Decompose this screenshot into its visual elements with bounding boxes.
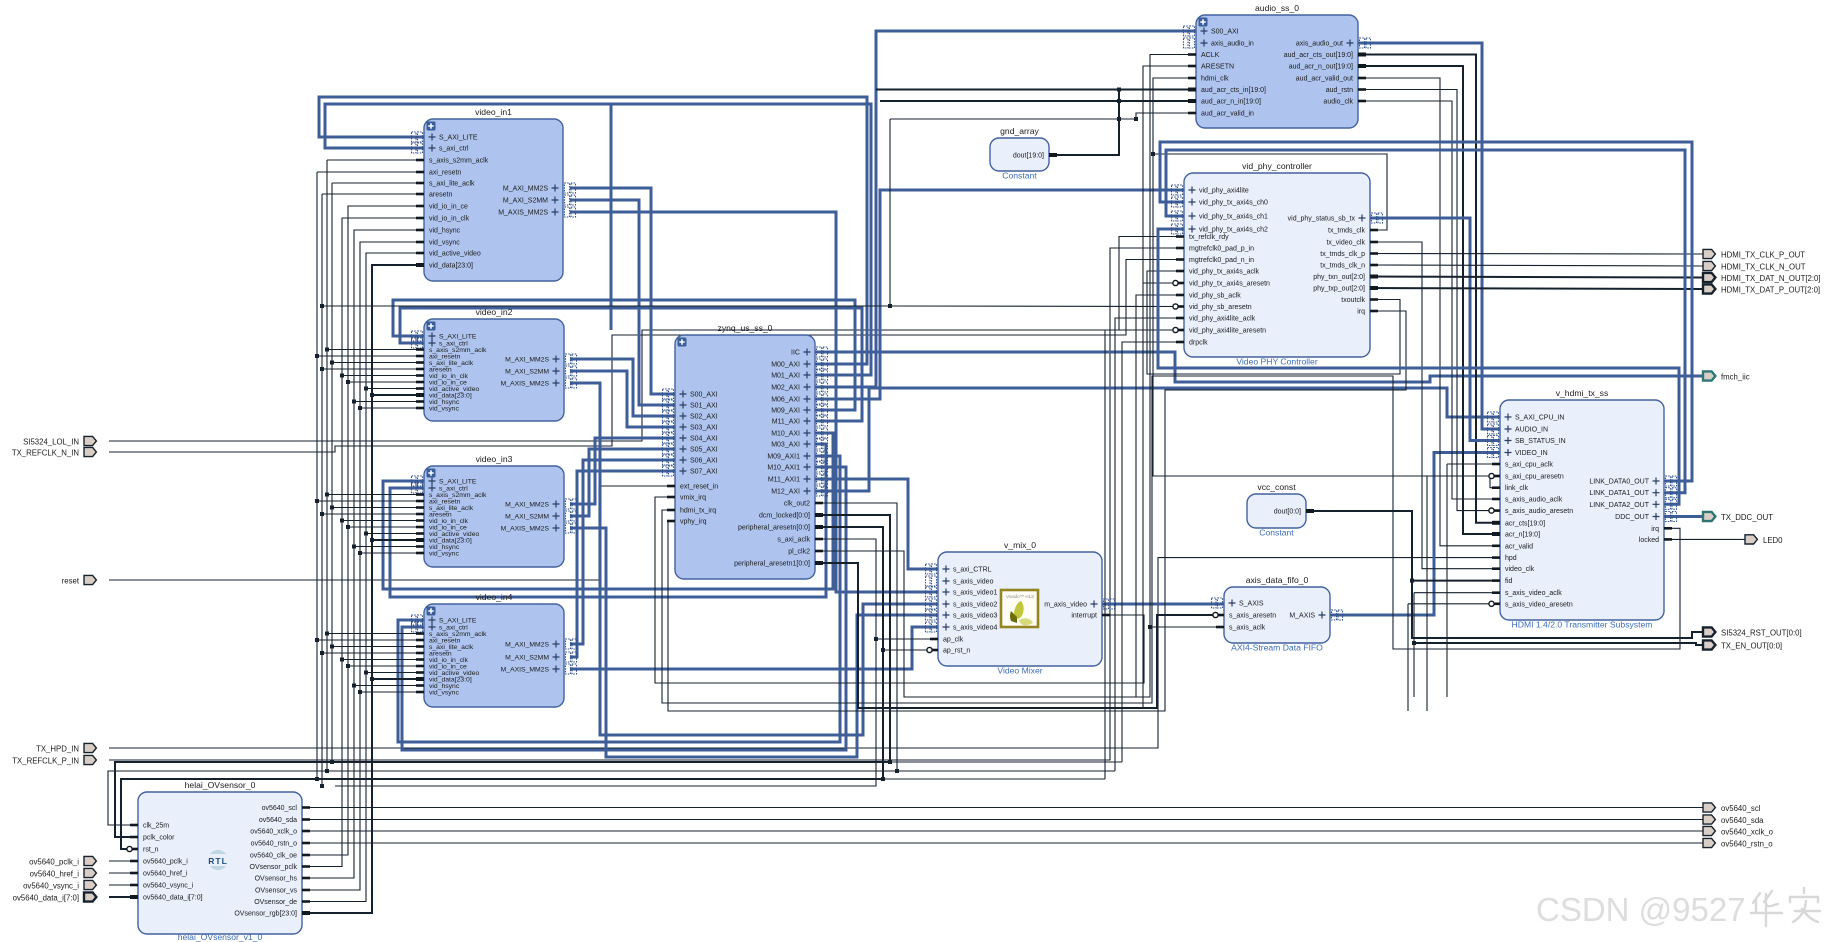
svg-text:vid_phy_axi4lite: vid_phy_axi4lite <box>1199 188 1249 195</box>
wire s2mm_aclk branch 349 <box>327 349 424 351</box>
svg-text:M_AXIS_MM2S: M_AXIS_MM2S <box>501 525 550 532</box>
node OVsensor_rgb j540 <box>370 538 374 542</box>
svg-text:ov5640_xclk_o: ov5640_xclk_o <box>250 829 297 836</box>
svg-text:OVsensor_hs: OVsensor_hs <box>255 876 298 883</box>
node s2mm_aclk j349 <box>325 348 329 352</box>
svg-text:S_AXI_CPU_IN: S_AXI_CPU_IN <box>1515 415 1564 422</box>
svg-text:dcm_locked[0:0]: dcm_locked[0:0] <box>759 513 810 520</box>
node OVsensor_vs j553 <box>358 551 362 555</box>
svg-text:M_AXI_MM2S: M_AXI_MM2S <box>505 641 549 648</box>
svg-text:s_axis_video4: s_axis_video4 <box>953 625 997 632</box>
wire audio axis_audio_out to v_hdmi AUDIO_IN <box>1358 43 1500 429</box>
svg-text:ov5640_rstn_o: ov5640_rstn_o <box>251 841 297 848</box>
wire aresetn branch 369 <box>322 368 424 370</box>
svg-text:OVsensor_pclk: OVsensor_pclk <box>250 864 298 871</box>
node lite_aclk j646 <box>330 645 334 649</box>
port ov5640_sda <box>1703 815 1764 825</box>
block video_in4 <box>412 592 577 707</box>
node s2mm_aclk j633 <box>325 632 329 636</box>
svg-text:vid_active_video: vid_active_video <box>429 251 481 258</box>
svg-text:M01_AXI: M01_AXI <box>771 373 800 380</box>
wire aresetn channel <box>321 194 323 786</box>
svg-text:vid_phy_tx_axi4s_ch0: vid_phy_tx_axi4s_ch0 <box>1199 200 1268 207</box>
wire vid_phy axi4lite_aclk feed <box>1115 318 1184 771</box>
wire v_mix m_axis_video to fifo S_AXIS <box>1102 603 1224 606</box>
svg-text:phy_txn_out[2:0]: phy_txn_out[2:0] <box>1313 274 1365 281</box>
wire axi_resetn branch 356 <box>317 355 424 357</box>
wire ov5640_sda run <box>302 819 1703 821</box>
svg-text:M_AXIS: M_AXIS <box>1289 613 1315 620</box>
port ov5640_scl <box>1703 803 1761 813</box>
svg-text:S07_AXI: S07_AXI <box>690 469 718 476</box>
wire vid_phy irq to vphy_irq <box>668 311 1406 711</box>
svg-text:locked: locked <box>1639 537 1659 544</box>
svg-text:tx_video_clk: tx_video_clk <box>1326 240 1365 247</box>
node OVsensor_pclk j520 <box>340 519 344 523</box>
node jn aprst <box>881 648 885 652</box>
svg-text:ov5640_xclk_o: ov5640_xclk_o <box>1721 827 1774 836</box>
svg-text:vid_phy_axi4lite_aresetn: vid_phy_axi4lite_aresetn <box>1189 328 1266 335</box>
wire phy_txn_out to HDMI_TX_DAT_N_OUT <box>1370 277 1703 278</box>
block gnd_array <box>990 126 1057 181</box>
svg-text:gnd_array: gnd_array <box>1000 126 1039 136</box>
svg-text:OVsensor_de: OVsensor_de <box>254 899 297 906</box>
svg-text:M_AXI_S2MM: M_AXI_S2MM <box>505 513 549 520</box>
wire axi_resetn branch 501 <box>317 500 424 502</box>
svg-text:s_axi_aclk: s_axi_aclk <box>777 537 810 544</box>
svg-text:vid_vsync: vid_vsync <box>429 405 459 412</box>
wire zynq M12_AXI to v_hdmi S_AXI_CPU_IN <box>815 388 1500 491</box>
wire lite_aclk branch 507 <box>332 507 424 509</box>
svg-text:HDMI 1.4/2.0 Transmitter Subsy: HDMI 1.4/2.0 Transmitter Subsystem <box>1512 620 1653 630</box>
node s2mm_aclk j494 <box>325 493 329 497</box>
svg-text:s_axis_video1: s_axis_video1 <box>953 590 997 597</box>
port ov5640_vsync_i <box>23 880 96 890</box>
port ov5640_pclk_i <box>29 856 96 866</box>
wire video_in2 M_AXI_S2MM to S03_AXI <box>570 371 675 427</box>
svg-text:tx_tmds_clk_p: tx_tmds_clk_p <box>1320 251 1365 258</box>
svg-text:TX_REFCLK_P_IN: TX_REFCLK_P_IN <box>12 756 79 765</box>
svg-text:helai_OVsensor_0: helai_OVsensor_0 <box>185 780 256 790</box>
node axi_resetn j640 <box>315 638 319 642</box>
node jn aclk fifo <box>1148 625 1152 629</box>
wire OVsensor_pclk branch 659 <box>342 659 424 661</box>
wire reset to ext_reset_in <box>109 486 675 580</box>
wire OVsensor_hs branch 685 <box>354 685 424 687</box>
svg-text:ov5640_sda: ov5640_sda <box>1721 816 1764 825</box>
port ov5640_data_i[7:0] <box>13 892 97 902</box>
wire s2mm_aclk branch 633 <box>327 633 424 635</box>
svg-text:vcc_const: vcc_const <box>1257 482 1296 492</box>
svg-text:vid_io_in_ce: vid_io_in_ce <box>429 204 468 211</box>
wire v_hdmi s_axis_video_aclk feed <box>1414 592 1500 594</box>
block video_in3 <box>412 454 577 567</box>
wire TX_REFCLK_P_IN to mgtrefclk0_pad_p_in <box>109 248 1184 760</box>
svg-text:vid_data[23:0]: vid_data[23:0] <box>429 263 473 270</box>
wire peripheral_aresetn1 to fifo s_axis_aresetn <box>815 563 1224 708</box>
wire v_hdmi clk feeds s_axi_cpu_aclk <box>1447 463 1500 465</box>
svg-text:M06_AXI: M06_AXI <box>771 397 800 404</box>
port HDMI_TX_CLK_N_OUT <box>1703 261 1806 271</box>
wire OVsensor_rgb branch 395 <box>372 394 424 396</box>
svg-text:M_AXI_S2MM: M_AXI_S2MM <box>505 654 549 661</box>
svg-text:aresetn: aresetn <box>429 192 452 199</box>
svg-text:S_AXI_LITE: S_AXI_LITE <box>439 617 477 624</box>
svg-text:M_AXI_MM2S: M_AXI_MM2S <box>505 356 549 363</box>
node jn gnd119 <box>1117 117 1121 121</box>
wire audio ACLK feed <box>1150 55 1196 628</box>
wire aresetn branch 514 <box>322 513 424 515</box>
wire clk trunk right <box>897 770 1115 772</box>
svg-text:S03_AXI: S03_AXI <box>690 425 718 432</box>
svg-text:s_axis_video2: s_axis_video2 <box>953 602 997 609</box>
node OVsensor_pclk j659 <box>340 658 344 662</box>
svg-text:S00_AXI: S00_AXI <box>690 392 718 399</box>
svg-text:M_AXI_S2MM: M_AXI_S2MM <box>505 368 549 375</box>
port TX_EN_OUT[0:0] <box>1703 640 1782 650</box>
wire lite_aclk branch 646 <box>332 646 424 648</box>
svg-text:helai_OVsensor_v1_0: helai_OVsensor_v1_0 <box>178 932 263 942</box>
v_mix_0 Vivado HLS logo <box>1001 590 1038 627</box>
svg-text:vid_phy_sb_aclk: vid_phy_sb_aclk <box>1189 293 1241 300</box>
svg-text:interrupt: interrupt <box>1071 613 1097 620</box>
svg-text:S01_AXI: S01_AXI <box>690 403 718 410</box>
wire ov5640_clk_oe branch 527 <box>348 526 424 528</box>
svg-text:M_AXI_MM2S: M_AXI_MM2S <box>503 186 548 193</box>
svg-text:aud_acr_valid_in: aud_acr_valid_in <box>1201 111 1254 118</box>
node jn aresetn helai <box>881 777 885 781</box>
svg-text:vid_phy_axi4lite_aclk: vid_phy_axi4lite_aclk <box>1189 316 1256 323</box>
svg-text:S_AXI_LITE: S_AXI_LITE <box>439 478 477 485</box>
wire DDC_OUT to TX_DDC_OUT <box>1664 515 1703 518</box>
block vcc_const <box>1247 482 1314 538</box>
wire aud_acr_n_out to acr_n <box>1358 66 1500 534</box>
node OVsensor_hs j546 <box>352 545 356 549</box>
svg-text:fmch_iic: fmch_iic <box>1721 372 1750 381</box>
wire OVsensor_vs elbow <box>302 242 424 890</box>
wire tmds to hdmi_clk <box>1153 78 1387 230</box>
svg-text:audio_clk: audio_clk <box>1323 99 1353 106</box>
wire ov5640_rstn_o run <box>302 842 1703 844</box>
svg-text:AXI4-Stream Data FIFO: AXI4-Stream Data FIFO <box>1231 643 1323 653</box>
wire v_hdmi s_axi_cpu_aresetn v <box>1426 476 1428 711</box>
wire zynq M11_AXI to video_in2 s_axi_ctrl <box>400 308 862 421</box>
wire zynq M10_AXI to video_in3 S_AXI_LITE <box>383 433 833 589</box>
wire s2mm_aclk branch 160 <box>327 159 424 161</box>
node axi_resetn j356 <box>315 354 319 358</box>
svg-text:ov5640_data_i[7:0]: ov5640_data_i[7:0] <box>13 893 79 902</box>
svg-text:VIDEO_IN: VIDEO_IN <box>1515 450 1548 457</box>
svg-text:vphy_irq: vphy_irq <box>680 519 707 526</box>
port SI5324_RST_OUT[0:0] <box>1703 627 1802 637</box>
svg-text:Video PHY Controller: Video PHY Controller <box>1236 357 1318 367</box>
svg-text:CSDN @9527: CSDN @9527 <box>1536 891 1746 928</box>
node jn rst2 <box>1410 579 1414 583</box>
svg-text:SI5324_RST_OUT[0:0]: SI5324_RST_OUT[0:0] <box>1721 628 1802 637</box>
port TX_REFCLK_P_IN <box>12 755 96 765</box>
wire gnd vertical <box>1118 90 1120 156</box>
svg-text:S_AXI_LITE: S_AXI_LITE <box>439 333 477 340</box>
port ov5640_xclk_o <box>1703 826 1774 836</box>
wire tx_tmds_clk_n to HDMI_TX_CLK_N_OUT <box>1370 265 1703 266</box>
wire video_in1 M_AXI_MM2S to S00_AXI <box>570 188 675 394</box>
svg-text:peripheral_aresetn1[0:0]: peripheral_aresetn1[0:0] <box>734 561 810 568</box>
svg-text:TX_DDC_OUT: TX_DDC_OUT <box>1721 513 1773 522</box>
wire OVsensor_vs branch 408 <box>360 407 424 409</box>
wire TX_HPD_IN to v_hdmi hpd <box>109 558 1500 748</box>
svg-text:peripheral_aresetn[0:0]: peripheral_aresetn[0:0] <box>738 525 810 532</box>
wire vid_phy drpclk feed <box>1122 342 1184 762</box>
node ov5640_clk_oe j382 <box>346 380 350 384</box>
svg-text:HDMI_TX_CLK_N_OUT: HDMI_TX_CLK_N_OUT <box>1721 262 1806 271</box>
svg-text:vid_hsync: vid_hsync <box>429 228 461 235</box>
svg-text:txoutclk: txoutclk <box>1341 297 1365 304</box>
node lite_aclk jb <box>330 760 334 764</box>
wire OVsensor_de branch 388 <box>366 388 424 390</box>
wire OVsensor_pclk branch 375 <box>342 375 424 377</box>
svg-text:vmix_irq: vmix_irq <box>680 495 706 502</box>
node ov5640_clk_oe j666 <box>346 664 350 668</box>
wire zynq M09_AXI1 to video_in4 S_AXI_LITE <box>398 456 840 742</box>
node jn sbar2 <box>320 304 324 308</box>
wire axi_resetn branch 172 <box>317 171 424 173</box>
node axi_resetn j501 <box>315 499 319 503</box>
wire OVsensor_hs branch 401 <box>354 401 424 403</box>
wire ov5640_href_i to helai <box>109 872 138 874</box>
wire zynq M06_AXI to vid_phy_axi4lite <box>815 190 1184 399</box>
wire locked to LED0 <box>1664 538 1745 540</box>
svg-text:DDC_OUT: DDC_OUT <box>1615 514 1650 521</box>
block v_hdmi_tx_ss <box>1488 388 1677 630</box>
port ov5640_rstn_o <box>1703 838 1773 848</box>
wire vid_phy_status_sb_tx to SB_STATUS_IN <box>1370 218 1500 441</box>
svg-text:acr_cts[19:0]: acr_cts[19:0] <box>1505 520 1545 527</box>
wire ov5640_clk_oe branch 382 <box>348 381 424 383</box>
svg-text:link_clk: link_clk <box>1505 485 1528 492</box>
svg-text:M00_AXI: M00_AXI <box>771 362 800 369</box>
svg-text:LINK_DATA1_OUT: LINK_DATA1_OUT <box>1589 490 1649 497</box>
wire lite_aclk branch 183 <box>332 182 424 184</box>
port HDMI_TX_DAT_P_OUT[2:0] <box>1703 284 1820 294</box>
wire ov5640_scl run <box>302 807 1703 809</box>
port HDMI_TX_CLK_P_OUT <box>1703 249 1805 259</box>
svg-text:S05_AXI: S05_AXI <box>690 447 718 454</box>
node jn gnd <box>1117 99 1121 103</box>
svg-text:pclk_color: pclk_color <box>143 835 175 842</box>
svg-text:M12_AXI: M12_AXI <box>771 489 800 496</box>
svg-text:s_axis_audio_aresetn: s_axis_audio_aresetn <box>1505 508 1573 515</box>
svg-text:tx_tmds_clk: tx_tmds_clk <box>1328 228 1365 235</box>
wire LINK_DATA0_OUT to ch0 <box>1160 142 1692 481</box>
svg-text:M_AXIS_MM2S: M_AXIS_MM2S <box>498 210 548 217</box>
wire aud_acr_cts_out to acr_cts <box>1358 55 1500 523</box>
svg-text:dout[0:0]: dout[0:0] <box>1274 509 1301 516</box>
node jn tmds <box>1151 152 1155 156</box>
node OVsensor_hs j685 <box>352 684 356 688</box>
svg-text:irq: irq <box>1651 526 1659 533</box>
svg-text:LINK_DATA2_OUT: LINK_DATA2_OUT <box>1589 502 1649 509</box>
svg-text:vid_vsync: vid_vsync <box>429 550 459 557</box>
wire SI5324_LOL_IN to tx_refclk_rdy <box>109 237 1184 442</box>
svg-text:vid_phy_status_sb_tx: vid_phy_status_sb_tx <box>1288 216 1356 223</box>
wire gnd to aud_acr_cts_in <box>876 89 1196 91</box>
wire v_hdmi irq to hdmi_tx_irq <box>662 376 1680 703</box>
wire sb_aresetn long <box>322 305 1184 308</box>
svg-text:ov5640_href_i: ov5640_href_i <box>30 869 80 878</box>
wire OVsensor_pclk elbow <box>302 218 424 867</box>
node jn dcm helai <box>888 760 892 764</box>
svg-text:vid_vsync: vid_vsync <box>429 240 460 247</box>
svg-text:clk_out2: clk_out2 <box>784 501 810 508</box>
port reset <box>62 575 97 585</box>
svg-text:dout[19:0]: dout[19:0] <box>1013 153 1044 160</box>
svg-text:audio_ss_0: audio_ss_0 <box>1255 3 1299 13</box>
svg-text:irq: irq <box>1357 309 1365 316</box>
svg-text:clk_25m: clk_25m <box>143 823 169 830</box>
port TX_DDC_OUT <box>1703 512 1773 522</box>
svg-text:tx_tmds_clk_n: tx_tmds_clk_n <box>1320 263 1365 270</box>
wire OVsensor_rgb branch 679 <box>372 678 424 680</box>
wire OVsensor_rgb elbow <box>302 265 424 913</box>
svg-text:ov5640_sda: ov5640_sda <box>259 817 297 824</box>
svg-text:s_axi_lite_aclk: s_axi_lite_aclk <box>429 181 475 188</box>
svg-text:IIC: IIC <box>791 350 800 357</box>
wire TX_REFCLK_N_IN to mgtrefclk0_pad_n_in <box>109 260 1184 453</box>
wire zynq M11_AXI1 to v_mix s_axi_CTRL <box>815 479 938 569</box>
svg-text:vid_phy_tx_axi4s_aresetn: vid_phy_tx_axi4s_aresetn <box>1189 281 1270 288</box>
svg-text:ov5640_scl: ov5640_scl <box>262 805 298 812</box>
wire peripheral_aresetn net <box>121 527 883 849</box>
svg-text:vid_vsync: vid_vsync <box>429 689 459 696</box>
wire video_in1 M_AXI_S2MM to S01_AXI <box>570 200 675 405</box>
svg-text:HDMI_TX_DAT_P_OUT[2:0]: HDMI_TX_DAT_P_OUT[2:0] <box>1721 285 1820 294</box>
wire s2mm_aclk branch 494 <box>327 494 424 496</box>
svg-text:axis_audio_out: axis_audio_out <box>1296 41 1343 48</box>
wire s_axi_aclk net <box>335 539 876 786</box>
node jn clk helai <box>895 769 899 773</box>
svg-text:M03_AXI: M03_AXI <box>771 442 800 449</box>
svg-text:ov5640_scl: ov5640_scl <box>1721 804 1761 813</box>
wire ov5640_clk_oe elbow <box>302 206 424 855</box>
svg-text:ov5640_pclk_i: ov5640_pclk_i <box>143 859 188 866</box>
svg-text:ACLK: ACLK <box>1201 52 1220 59</box>
port ov5640_href_i <box>30 868 97 878</box>
svg-text:s_axi_cpu_aclk: s_axi_cpu_aclk <box>1505 462 1553 469</box>
wire video_in4 M_AXIS_MM2S to v_mix s_axis_video4 <box>570 627 938 669</box>
svg-text:S02_AXI: S02_AXI <box>690 414 718 421</box>
block video_in1 <box>412 107 576 281</box>
svg-text:Vivado™ HLS: Vivado™ HLS <box>1006 594 1034 599</box>
svg-text:ARESETN: ARESETN <box>1201 64 1234 71</box>
node jn sbar <box>888 304 892 308</box>
svg-text:axi_resetn: axi_resetn <box>429 170 461 177</box>
svg-text:TX_HPD_IN: TX_HPD_IN <box>36 744 79 753</box>
svg-text:S06_AXI: S06_AXI <box>690 458 718 465</box>
svg-text:vid_phy_sb_aresetn: vid_phy_sb_aresetn <box>1189 304 1252 311</box>
svg-text:phy_txp_out[2:0]: phy_txp_out[2:0] <box>1313 286 1365 293</box>
svg-text:hdmi_tx_irq: hdmi_tx_irq <box>680 508 716 515</box>
wire v_hdmi s_axis_video_aresetn v <box>1407 604 1409 711</box>
svg-text:zynq_us_ss_0: zynq_us_ss_0 <box>718 323 773 333</box>
wire pl_clk2 to fifo s_axis_aclk <box>815 551 1224 697</box>
wire v_hdmi s_axi_cpu_aresetn feed <box>1427 475 1500 477</box>
wire vcc_const dout to fid <box>1306 511 1500 581</box>
wire SI5324_RST_OUT <box>1412 581 1703 638</box>
svg-text:ov5640_href_i: ov5640_href_i <box>143 871 188 878</box>
wire lite_aclk channel <box>331 183 333 762</box>
svg-text:Constant: Constant <box>1259 528 1294 538</box>
wire OVsensor_pclk branch 520 <box>342 520 424 522</box>
svg-text:M02_AXI: M02_AXI <box>771 385 800 392</box>
wire aud_rstn to s_axis_audio_aresetn <box>1358 90 1500 511</box>
svg-text:TX_EN_OUT[0:0]: TX_EN_OUT[0:0] <box>1721 641 1782 650</box>
block zynq_us_ss_0 <box>663 323 828 579</box>
svg-text:M_AXIS_MM2S: M_AXIS_MM2S <box>501 380 550 387</box>
wire clk branch v_mix ap_clk <box>876 638 938 640</box>
wire OVsensor_hs elbow <box>302 230 424 878</box>
node OVsensor_vs j692 <box>358 690 362 694</box>
svg-text:acr_valid: acr_valid <box>1505 543 1533 550</box>
watermark CSDN @9527 <box>1536 888 1820 928</box>
svg-text:ov5640_rstn_o: ov5640_rstn_o <box>1721 839 1773 848</box>
svg-text:aud_acr_n_out[19:0]: aud_acr_n_out[19:0] <box>1289 64 1353 71</box>
node jn apclk <box>874 637 878 641</box>
node OVsensor_pclk j375 <box>340 374 344 378</box>
wire zynq IIC to fmch_iic <box>815 352 1703 382</box>
svg-text:OVsensor_vs: OVsensor_vs <box>255 888 298 895</box>
wire zynq M01_AXI to video_in1 s_axi_ctrl <box>325 104 871 375</box>
node OVsensor_de j388 <box>364 387 368 391</box>
wire phy_txp_out to HDMI_TX_DAT_P_OUT <box>1370 288 1703 289</box>
node lite_aclk j362 <box>330 361 334 365</box>
wire aresetn branch 653 <box>322 652 424 654</box>
wire zynq M03_AXI to video_in3 s_axi_ctrl <box>390 444 826 597</box>
svg-text:s_axi_ctrl: s_axi_ctrl <box>439 146 469 153</box>
wire aresetn branch v_mix ap_rst_n <box>883 649 938 651</box>
wire audio_clk to s_axis_audio_aclk <box>1358 101 1500 499</box>
svg-text:v_hdmi_tx_ss: v_hdmi_tx_ss <box>1556 388 1609 398</box>
node OVsensor_vs j408 <box>358 406 362 410</box>
port TX_REFCLK_N_IN <box>12 447 97 457</box>
wire gnd to aud_acr_n_in <box>880 100 1196 102</box>
wire video_in4 M_AXI_MM2S to S06_AXI <box>570 460 675 644</box>
svg-text:vid_phy_tx_axi4s_ch1: vid_phy_tx_axi4s_ch1 <box>1199 214 1268 221</box>
wire video_in3 M_AXI_MM2S to S04_AXI <box>570 438 675 504</box>
wire video_in3 M_AXI_S2MM to S05_AXI <box>570 449 675 516</box>
svg-text:ov5640_pclk_i: ov5640_pclk_i <box>29 857 79 866</box>
svg-text:M10_AXI: M10_AXI <box>771 431 800 438</box>
svg-text:s_axis_s2mm_aclk: s_axis_s2mm_aclk <box>429 158 489 165</box>
svg-text:RTL: RTL <box>208 856 228 866</box>
node lite_aclk j507 <box>330 506 334 510</box>
wire txoutclk to vid_phy_tx_axi4s_aclk <box>1147 271 1400 374</box>
wire v_mix interrupt to vmix_irq <box>655 497 1144 683</box>
svg-text:hpd: hpd <box>1505 555 1517 562</box>
svg-text:mgtrefclk0_pad_n_in: mgtrefclk0_pad_n_in <box>1189 257 1254 264</box>
svg-text:M_AXI_S2MM: M_AXI_S2MM <box>503 198 548 205</box>
port SI5324_LOL_IN <box>23 436 96 446</box>
svg-text:HDMI_TX_CLK_P_OUT: HDMI_TX_CLK_P_OUT <box>1721 250 1805 259</box>
svg-text:rst_n: rst_n <box>143 847 159 854</box>
svg-text:s_axis_video: s_axis_video <box>953 579 994 586</box>
node OVsensor_hs j401 <box>352 400 356 404</box>
wire audio ARESETN feed <box>1143 66 1196 708</box>
block helai_OVsensor_0 <box>127 780 310 942</box>
svg-text:ov5640_data_i[7:0]: ov5640_data_i[7:0] <box>143 895 203 902</box>
node aresetn jb <box>320 784 324 788</box>
svg-text:vid_phy_tx_axi4s_aclk: vid_phy_tx_axi4s_aclk <box>1189 269 1260 276</box>
svg-text:s_axis_aclk: s_axis_aclk <box>1229 625 1266 632</box>
